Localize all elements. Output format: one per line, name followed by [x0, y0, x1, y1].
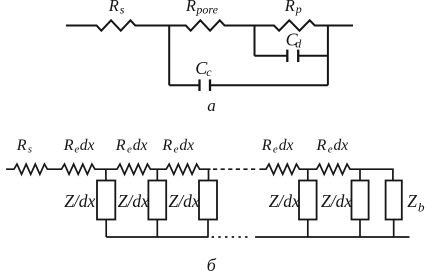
svg-text:б: б	[207, 255, 217, 271]
svg-text:dx: dx	[80, 137, 95, 154]
svg-text:p: p	[295, 2, 302, 16]
svg-text:dx: dx	[279, 137, 294, 154]
svg-text:Z/dx: Z/dx	[321, 191, 352, 211]
svg-text:R: R	[316, 137, 327, 154]
svg-text:dx: dx	[133, 137, 148, 154]
svg-text:a: a	[207, 96, 216, 115]
svg-text:R: R	[185, 0, 196, 15]
svg-text:dx: dx	[179, 137, 194, 154]
svg-text:e: e	[127, 144, 132, 156]
svg-text:Z/dx: Z/dx	[269, 191, 300, 211]
svg-text:b: b	[418, 200, 425, 215]
svg-text:R: R	[261, 137, 272, 154]
svg-text:R: R	[115, 137, 126, 154]
svg-text:R: R	[284, 0, 295, 15]
svg-text:R: R	[108, 0, 119, 15]
svg-text:e: e	[273, 144, 278, 156]
svg-text:R: R	[161, 137, 172, 154]
svg-text:Z/dx: Z/dx	[169, 191, 200, 211]
svg-text:d: d	[295, 37, 302, 51]
svg-text:s: s	[120, 3, 125, 17]
svg-text:R: R	[63, 137, 74, 154]
svg-text:s: s	[28, 144, 32, 156]
svg-text:Z/dx: Z/dx	[118, 191, 149, 211]
svg-text:e: e	[328, 144, 333, 156]
svg-text:dx: dx	[334, 137, 349, 154]
svg-text:e: e	[174, 144, 179, 156]
svg-text:c: c	[206, 65, 212, 79]
svg-text:Z/dx: Z/dx	[64, 191, 95, 211]
svg-text:pore: pore	[195, 3, 218, 17]
svg-text:R: R	[16, 137, 27, 154]
svg-text:e: e	[74, 144, 79, 156]
svg-text:Z: Z	[407, 191, 417, 211]
